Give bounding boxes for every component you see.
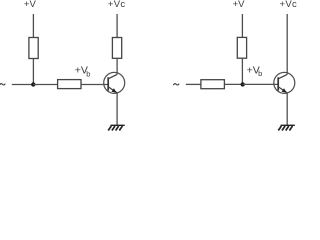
wire from junction to R2 xyxy=(33,84,57,86)
transistor Q2 base bar xyxy=(277,77,279,90)
resistor R5 (horizontal, series) xyxy=(201,80,225,89)
emitter wire to ground (right) xyxy=(286,93,288,125)
emitter wire to ground xyxy=(116,93,118,125)
resistor R2 (horizontal, base) xyxy=(58,80,81,89)
wire from R4 to junction xyxy=(241,58,243,84)
svg-text:+V: +V xyxy=(233,0,246,10)
wire from R2 to base xyxy=(81,84,108,86)
svg-text:+Vc: +Vc xyxy=(280,0,298,10)
wire from ~ to junction xyxy=(12,84,34,86)
junction node (left) xyxy=(31,82,35,86)
svg-text:+V: +V xyxy=(24,0,37,10)
svg-text:+Vc: +Vc xyxy=(108,0,126,10)
wire from R5 to junction xyxy=(224,83,242,85)
wire from +V to R1 xyxy=(32,14,34,38)
wire from junction to base xyxy=(243,83,279,85)
wire from +Vc to R3 xyxy=(116,14,118,38)
ground (left) xyxy=(108,125,125,130)
transistor Q1 circle xyxy=(104,72,125,93)
wire from R3 to collector xyxy=(116,58,118,74)
wire from +V to R4 xyxy=(241,14,243,37)
ground (right) xyxy=(278,125,295,130)
resistor R4 (vertical, from +V) xyxy=(237,37,246,58)
transistor Q1 collector diagonal xyxy=(108,74,117,78)
AC source symbol ~ (right) xyxy=(173,84,179,86)
svg-text:b: b xyxy=(86,69,90,78)
transistor Q2 emitter diagonal xyxy=(278,87,287,93)
svg-text:b: b xyxy=(258,69,262,78)
transistor Q2 circle xyxy=(274,72,295,93)
collector wire from +Vc direct to collector xyxy=(286,14,288,74)
AC source symbol ~ (left) xyxy=(0,84,5,86)
junction node (right) xyxy=(241,82,245,86)
wire from ~ to R5 xyxy=(186,83,201,85)
resistor R3 (vertical, collector) xyxy=(112,38,121,59)
transistor Q2 emitter arrowhead xyxy=(282,88,287,92)
transistor Q2 collector diagonal xyxy=(278,74,287,78)
transistor Q1 base bar xyxy=(107,77,109,90)
wire from R1 to junction xyxy=(32,59,34,85)
transistor Q1 emitter arrowhead xyxy=(112,88,117,92)
resistor R1 (vertical, from +V) xyxy=(29,38,38,59)
transistor Q1 emitter diagonal xyxy=(108,87,117,93)
